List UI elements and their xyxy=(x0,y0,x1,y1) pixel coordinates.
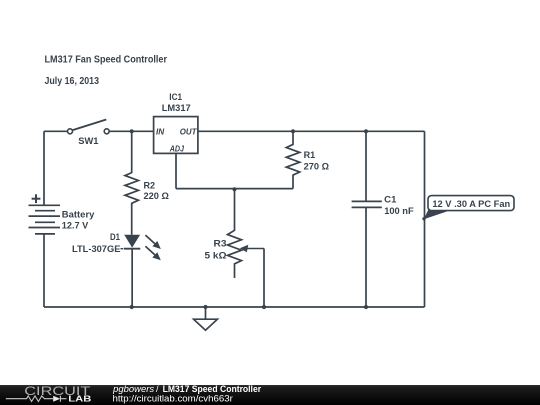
LED D1 xyxy=(121,235,161,307)
node junction R1 top xyxy=(291,129,295,133)
svg-text:LM317: LM317 xyxy=(162,103,191,114)
wire left vertical battery + lead xyxy=(43,131,45,205)
wire right vertical to fan xyxy=(424,131,426,307)
capacitor C1 xyxy=(352,131,382,307)
wire IC1 OUT pin to top-right corner xyxy=(198,130,425,132)
svg-text:12 V .30 A PC Fan: 12 V .30 A PC Fan xyxy=(432,199,510,210)
node junction ADJ/R3 xyxy=(232,187,236,191)
svg-text:OUT: OUT xyxy=(180,128,198,137)
svg-text:IN: IN xyxy=(156,128,164,137)
svg-text:R1: R1 xyxy=(304,150,316,161)
wire left vertical battery - lead xyxy=(43,234,45,307)
svg-text:Battery: Battery xyxy=(62,209,95,220)
svg-text:100 nF: 100 nF xyxy=(384,206,414,217)
svg-text:July 16, 2013: July 16, 2013 xyxy=(45,76,100,87)
battery V1 xyxy=(29,194,61,234)
svg-text:C1: C1 xyxy=(384,195,397,206)
footer logo circuit glyph xyxy=(6,396,67,402)
ground xyxy=(194,307,218,330)
svg-text:D1: D1 xyxy=(110,232,121,243)
wire ADJ to R1 bottom xyxy=(176,188,293,190)
wire ADJ pin down xyxy=(175,153,177,188)
annotation callout 12 V .30 A PC Fan xyxy=(422,196,514,221)
node junction ground xyxy=(203,305,207,309)
svg-text:LTL-307GE: LTL-307GE xyxy=(72,244,120,255)
potentiometer R3 xyxy=(228,189,242,278)
svg-text:5 kΩ: 5 kΩ xyxy=(205,250,227,261)
node junction D1 bottom xyxy=(130,305,134,309)
node junction C1 top xyxy=(364,129,368,133)
svg-text:220 Ω: 220 Ω xyxy=(144,191,170,202)
svg-text:SW1: SW1 xyxy=(78,136,99,147)
svg-text:http://circuitlab.com/cvh663r: http://circuitlab.com/cvh663r xyxy=(113,394,233,404)
node junction R3 wiper bottom xyxy=(262,305,266,309)
svg-text:R2: R2 xyxy=(144,180,156,191)
wire SW1 to IC1 IN pin xyxy=(109,130,154,132)
node junction C1 bottom xyxy=(364,305,368,309)
svg-text:270 Ω: 270 Ω xyxy=(304,162,330,173)
svg-text:LAB: LAB xyxy=(68,394,91,404)
node junction SW1/R2 branch xyxy=(130,129,134,133)
svg-text:ADJ: ADJ xyxy=(169,145,185,154)
svg-text:IC1: IC1 xyxy=(169,92,182,103)
switch SW1 xyxy=(68,120,110,134)
resistor R1 xyxy=(286,131,299,188)
wire bottom rail xyxy=(44,306,425,308)
footer bar xyxy=(0,385,540,405)
op-amp/regulator IC1 box xyxy=(154,117,198,154)
wire top-left from battery + to SW1 xyxy=(44,130,68,132)
resistor R2 xyxy=(125,131,138,235)
svg-text:LM317 Fan Speed Controller: LM317 Fan Speed Controller xyxy=(45,55,168,66)
svg-text:R3: R3 xyxy=(214,239,227,250)
potentiometer R3 wiper xyxy=(247,248,265,250)
svg-text:12.7 V: 12.7 V xyxy=(62,221,89,232)
wire R3 wiper down to bottom rail xyxy=(263,249,265,308)
